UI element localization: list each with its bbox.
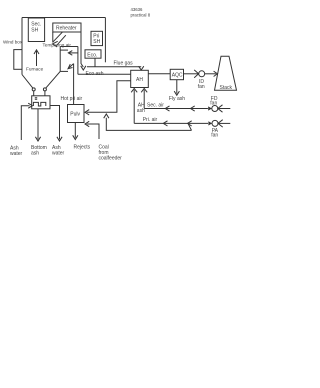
svg-text:43636: 43636: [131, 7, 144, 12]
wire boiler top line: [22, 17, 105, 19]
svg-text:Reheater: Reheater: [56, 26, 77, 32]
svg-text:Furnace: Furnace: [26, 67, 44, 72]
svg-text:SH: SH: [31, 27, 38, 33]
wire cold pri air riser into AH: [131, 88, 137, 123]
svg-text:fan: fan: [211, 133, 218, 139]
wire rejects outlet: [73, 123, 78, 140]
svg-text:Pri. air: Pri. air: [143, 117, 158, 123]
label AH ash: [137, 103, 145, 114]
svg-text:Fly ash: Fly ash: [169, 96, 185, 102]
air heater box AH: [131, 70, 149, 87]
wire windbox bracket upper stub: [60, 49, 68, 51]
ID fan: [184, 70, 218, 90]
wire reheater left edge extension: [52, 32, 54, 42]
wire second pass left wall: [81, 32, 83, 67]
wind box: [3, 40, 23, 70]
wire tempering air line: [104, 114, 192, 130]
reheater box: [53, 23, 81, 32]
burner circle left: [32, 88, 35, 96]
title text: [131, 7, 151, 17]
svg-text:Eco.: Eco.: [87, 52, 97, 58]
label ash water right: [52, 145, 65, 157]
wire sec air line from FD fan: [144, 106, 208, 111]
wire tempering air duct diagonal 1: [53, 32, 63, 42]
wire tempering air duct diagonal 2 with arrow: [53, 35, 66, 47]
wire bottom ash outlet: [35, 109, 40, 141]
wire ash water outlet right: [50, 106, 62, 142]
label ash water left: [10, 146, 23, 158]
wire furnace gas up arrow: [34, 50, 39, 66]
svg-text:Pulv: Pulv: [70, 112, 80, 118]
svg-text:AH: AH: [136, 77, 143, 83]
svg-text:Stack: Stack: [220, 85, 233, 91]
stack: [215, 56, 237, 91]
wire hot sec air header to AH: [78, 73, 131, 75]
wire second pass right wall: [104, 18, 106, 63]
wire fly ash outlet: [174, 80, 179, 96]
wire furnace right wall: [59, 47, 61, 72]
wire hot sec air riser: [77, 47, 79, 75]
wire furnace left wall: [21, 18, 23, 75]
wire cold sec air riser into AH: [141, 88, 147, 108]
wire economiser stub: [94, 58, 96, 67]
label bottom ash: [31, 145, 47, 157]
pulveriser box: [68, 105, 85, 123]
wire eco ash arrow: [81, 66, 86, 70]
wire windbox bracket lower stub: [60, 70, 68, 72]
label coal from coalfeeder: [99, 145, 123, 162]
svg-text:fan: fan: [198, 84, 205, 90]
FD fan: [208, 96, 230, 112]
svg-text:ash: ash: [31, 151, 39, 157]
primary superheater box: [91, 31, 103, 45]
svg-text:Sec. air: Sec. air: [147, 103, 164, 109]
svg-text:Wind box: Wind box: [3, 40, 23, 45]
svg-text:AQC: AQC: [172, 72, 183, 78]
svg-text:practical 8: practical 8: [131, 13, 151, 18]
wire burner pipe from pulveriser: [68, 64, 74, 105]
wire pri air line from PA fan: [134, 121, 208, 131]
economiser box: [85, 50, 101, 59]
svg-text:ash: ash: [137, 108, 145, 114]
svg-text:fan: fan: [210, 101, 217, 107]
svg-text:Hot pri air: Hot pri air: [61, 96, 83, 102]
svg-text:Tempering air: Tempering air: [43, 43, 72, 48]
wire sec air branch arrow into windbox: [68, 51, 78, 56]
wire furnace roof line to duct: [60, 46, 78, 48]
burner circle right: [43, 88, 46, 96]
wire furnace left hopper slope: [22, 75, 33, 89]
wire coal feed line: [85, 121, 99, 139]
svg-text:Eco ash: Eco ash: [86, 71, 104, 77]
svg-text:Flue gas: Flue gas: [114, 61, 134, 67]
svg-text:water: water: [10, 151, 23, 157]
svg-text:coalfeeder: coalfeeder: [99, 156, 123, 162]
svg-text:water: water: [52, 151, 65, 157]
secondary superheater box: [28, 18, 44, 42]
wire ash water inlet left: [21, 103, 32, 140]
svg-text:SH: SH: [93, 39, 100, 45]
wire furnace right hopper slope: [46, 71, 61, 88]
wire hot pri air from AH to pulveriser: [85, 81, 131, 115]
wire flue gas line to AH: [87, 66, 144, 70]
AQC box: [170, 69, 183, 79]
wire AH to AQC: [148, 73, 170, 75]
PA fan: [208, 120, 230, 139]
grate ash hopper box: [32, 96, 50, 109]
svg-text:Rejects: Rejects: [74, 145, 91, 151]
